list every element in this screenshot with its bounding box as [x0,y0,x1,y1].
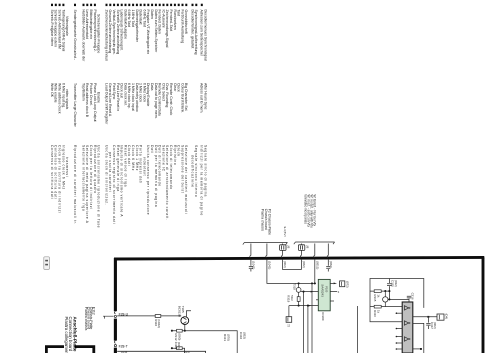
svg-text:Clock 6 MHz: Clock 6 MHz [131,145,135,171]
svg-text:Selezione di arrotondamento ca: Selezione di arrotondamento caratt. [165,145,169,220]
svg-text:Datentakt Ausgabe: Datentakt Ausgabe [123,10,127,40]
junction row to C316 [388,298,409,300]
connector box 12 [286,317,292,323]
svg-text:Piastra chassis: Piastra chassis [261,209,265,232]
bottom sub-board box [117,351,205,353]
bus: bottom U-shape [46,347,93,353]
svg-text:Data out to page mem.: Data out to page mem. [154,83,158,119]
svg-text:Consenso di scrittura dati: Consenso di scrittura dati [54,145,58,199]
svg-text:(080): (080) [178,333,182,340]
svg-text:(0512): (0512) [316,261,320,269]
svg-text:(1042): (1042) [157,319,161,328]
svg-text:C310: C310 [239,332,243,340]
svg-text:Porta ingressi dati: Porta ingressi dati [139,145,143,184]
svg-text:Phase Lock Loop Output: Phase Lock Loop Output [93,83,97,122]
svg-text:Reset veloce di riga: Reset veloce di riga [123,145,127,187]
svg-text:Ingresso clock 6 MHz: Ingresso clock 6 MHz [61,145,65,190]
svg-text:6 MHz Takt: 6 MHz Takt [142,10,146,27]
svg-text:trasmessi: trasmessi [65,157,69,177]
svg-text:1k: 1k [376,294,380,298]
wire into bottom-left pin [289,305,318,307]
svg-text:Impulso di sincronismo vertica: Impulso di sincronismo verticale A [120,145,124,217]
svg-text:Clock: Clock [177,145,181,157]
svg-text:Datentakt: Datentakt [139,10,143,25]
svg-text:6 MHz Takt: 6 MHz Takt [127,10,131,27]
svg-text:Freigabe VT-Wiedergabe ein: Freigabe VT-Wiedergabe ein [146,10,150,55]
svg-text:General Line Reset A: General Line Reset A [108,83,112,117]
capacitor C315 [387,279,392,300]
svg-text:Bildwiedergabe ein: Bildwiedergabe ein [89,10,93,40]
horizontal wire y=330.7 [172,331,237,353]
svg-text:Clock per la lettura di indiri: Clock per la lettura di indirizzi [89,145,93,210]
connector F28-U symbol [114,311,117,314]
wire 2 below bus to IC300 pin 1 [267,260,316,284]
svg-text:UB: UB [287,245,290,249]
wire 5 below bus joins pin1 wire [314,260,316,284]
svg-text:Selezione interlacciamento rig: Selezione interlacciamento riga [81,145,85,211]
svg-text:Synchronsignal-Aufbereitung: Synchronsignal-Aufbereitung [194,10,198,55]
svg-text:Load Output Shift Register: Load Output Shift Register [104,83,108,125]
svg-text:Fernbed.-Takt: Fernbed.-Takt [169,10,173,32]
svg-text:per uscita caratteri: per uscita caratteri [108,152,112,192]
svg-text:Clock out: Clock out [120,83,124,98]
svg-text:Write address clock: Write address clock [58,83,62,114]
svg-text:6 MHz input sig.: 6 MHz input sig. [61,83,65,108]
svg-text:6 MHz clock: 6 MHz clock [142,83,146,102]
svg-text:(062): (062) [329,261,333,268]
svg-text:Gesamt-Zeilenruecksetzung: Gesamt-Zeilenruecksetzung [108,10,112,54]
resistor R312 [177,329,183,332]
filter box on wire 4 [298,245,304,251]
emitter wire down [184,325,186,331]
svg-text:Segnale sincro di pagina: Segnale sincro di pagina [204,145,208,197]
svg-text:(032): (032) [394,280,398,287]
svg-text:Phasensynchronisierung 2.: Phasensynchronisierung 2. [93,10,97,52]
svg-text:decodificazione: decodificazione [190,155,194,188]
svg-text:(1042): (1042) [252,261,256,269]
svg-text:R316: R316 [373,310,377,317]
bracket group 2 [294,242,335,244]
svg-text:Selezione IC: Selezione IC [161,145,165,172]
svg-text:Field Sync: Field Sync [112,83,116,100]
bus: right vertical [482,257,485,353]
wire 6 below bus with capacitor [326,260,330,272]
svg-text:Char. Rounding: Char. Rounding [165,83,169,107]
svg-text:Clock: Clock [177,83,181,92]
svg-text:Clock di telecomando: Clock di telecomando [169,145,173,190]
pin stubs green IC [330,283,337,301]
svg-text:Halbbilder-Auswahl, oberhalb d: Halbbilder-Auswahl, oberhalb der [81,10,85,63]
svg-text:Clock 1 MHz: Clock 1 MHz [135,145,139,171]
capacitor C308 branch [172,348,185,353]
svg-text:Data: Data [150,83,154,90]
transistor T315 [383,297,388,302]
connector E23 [44,257,50,270]
svg-text:Write OK: Write OK [50,83,54,98]
svg-text:Dateneingabefenster: Dateneingabefenster [135,10,139,43]
svg-text:C317: C317 [430,322,434,329]
svg-text:(062): (062) [433,322,437,329]
svg-text:SAA5243: SAA5243 [321,284,325,297]
wire into pin2 with arrow [301,291,319,293]
svg-text:After Hours Sync: After Hours Sync [204,83,208,110]
svg-text:Schnelle Zeilenruecksetzung: Schnelle Zeilenruecksetzung [116,10,120,55]
svg-text:Schreib-Freigabe intern: Schreib-Freigabe intern [50,10,54,47]
svg-text:Schreib-Freigabe extern: Schreib-Freigabe extern [54,10,58,48]
svg-text:Ruecksetzen: Ruecksetzen [173,10,177,30]
svg-text:T310: T310 [293,283,297,290]
svg-text:Consenso di scrittura dati: Consenso di scrittura dati [50,145,54,199]
svg-text:Fast Line Reset in: Fast Line Reset in [116,83,120,111]
IC310 right wires [413,316,437,318]
svg-text:IC300: IC300 [321,312,325,320]
svg-text:Adress out to mem.: Adress out to mem. [200,83,204,113]
transistor T305 [181,317,189,325]
svg-text:Taktregelung 6 MHz Signal: Taktregelung 6 MHz Signal [61,10,65,52]
svg-text:Data clock sel.: Data clock sel. [123,83,127,106]
svg-text:Riproduzione di quadro: Riproduzione di quadro [93,145,97,194]
svg-text:Clock per la scrittura di indi: Clock per la scrittura di indirizzi [58,145,62,213]
svg-text:F28-T: F28-T [119,344,128,348]
svg-text:Picture On sel.: Picture On sel. [89,83,93,106]
svg-text:(072): (072) [345,281,349,288]
svg-text:(1042): (1042) [268,261,272,269]
svg-text:Schieberegister-Freigabe: Schieberegister-Freigabe [97,14,101,53]
svg-text:Zeichenrundungs-Signal: Zeichenrundungs-Signal [165,10,169,48]
svg-text:Dati: Dati [150,145,154,154]
svg-text:9-3,5V=: 9-3,5V= [283,227,287,238]
svg-text:Uscita consenso per riproduzio: Uscita consenso per riproduzione [146,145,150,215]
svg-text:Ladeimpuls Schieberegist.: Ladeimpuls Schieberegist. [120,10,124,51]
svg-text:T305: T305 [181,306,185,313]
standalone vertical wire [357,306,359,353]
wire 1 below bus with capacitor [249,260,253,272]
svg-text:UB: UB [305,245,308,249]
transistor T310 [296,288,301,293]
svg-text:Data entry window: Data entry window [135,83,139,112]
svg-text:Clear: Clear [173,83,177,92]
resistor R110 [155,315,161,318]
bus: left vertical with connector gaps [114,258,117,311]
svg-text:1 MHz clock input: 1 MHz clock input [131,83,135,111]
svg-text:video signals: video signals [65,89,69,109]
svg-text:Indirizzi per la memoria di pa: Indirizzi per la memoria di pagine [200,145,204,216]
svg-text:Daten zum Seiten-Speicher: Daten zum Seiten-Speicher [154,10,158,54]
svg-text:C315: C315 [390,280,394,287]
svg-text:Reset generale di riga: Reset generale di riga [116,145,120,192]
svg-text:(062): (062) [302,261,306,268]
resistor R315 row [370,290,389,292]
svg-text:(070): (070) [226,334,230,341]
svg-text:(052): (052) [243,332,247,339]
resistor R318 [297,297,300,302]
svg-text:1 MHz Takt: 1 MHz Takt [131,10,135,27]
svg-text:Takt: Takt [177,10,181,16]
svg-text:Chip Select: Chip Select [161,83,165,101]
svg-text:Enable: Enable [97,92,101,103]
svg-text:Adressen zum Seitenspeicher: Adressen zum Seitenspeicher [200,10,204,57]
svg-text:Piastra chassis: Piastra chassis [84,307,88,331]
svg-text:Colour Burst Blank.: Colour Burst Blank. [180,83,184,113]
svg-text:Piastra collegamenti: Piastra collegamenti [64,317,69,354]
svg-text:Segnale sincrono interno: Segnale sincrono interno [194,145,198,197]
IC300 teletext processor (green) [318,279,330,310]
wire stub to F28-U [103,316,114,318]
svg-text:Videosignale: Videosignale [65,16,69,36]
svg-text:Dati per la memoria di pagina: Dati per la memoria di pagina [154,145,158,207]
svg-text:Selezione di meta pagina super: Selezione di meta pagina superiore A [85,145,89,224]
svg-text:Schreib-Adressentakt 6M: Schreib-Adressentakt 6M [58,10,62,49]
wire loop frame [370,279,424,322]
svg-text:51R: 51R [290,295,294,300]
svg-text:6 MHz clock inp.: 6 MHz clock inp. [127,83,131,109]
IC310 left pin stubs [396,312,402,314]
capacitor C316 [407,296,411,302]
svg-text:Uscita sincronismo riproduzion: Uscita sincronismo riproduzione di fase [97,145,101,228]
svg-text:videotext: videotext [142,157,146,176]
wire F28-U to transistor [117,315,181,317]
svg-text:televideo incorporato: televideo incorporato [303,195,307,225]
svg-text:Top/Bottom: Top/Bottom [81,83,85,101]
connector wires through bus [250,244,251,258]
bus: main horizontal supply line [114,257,484,259]
svg-text:Sendergesteuerte Grossbuchst.-: Sendergesteuerte Grossbuchst.- [73,10,77,61]
svg-text:Lese-Adressentakt: Lese-Adressentakt [85,10,89,39]
svg-text:Write enable: Write enable [54,83,58,103]
svg-text:Vertikal-Synchronimpuls ges.: Vertikal-Synchronimpuls ges. [112,10,116,55]
svg-text:Display Enable: Display Enable [146,83,150,106]
svg-text:Zwischenzeilenabtastung ein/au: Zwischenzeilenabtastung ein/aus [104,10,108,62]
signal list text columns [50,4,208,228]
svg-text:Consenso registro di scorrimen: Consenso registro di scorrimento dati [112,145,116,224]
filter box on wire 3 [280,245,286,251]
svg-text:Read address clock B: Read address clock B [85,83,89,118]
svg-text:Grossbildschrift: Grossbildschrift [184,10,188,34]
svg-text:(042): (042) [177,342,181,349]
svg-text:Ripristino: Ripristino [173,145,177,165]
svg-text:Big Character Sel.: Big Character Sel. [184,83,188,111]
resistor R316 row [370,306,402,308]
bracket P2 group 1 [243,242,288,244]
svg-text:Farbburst-Austastung: Farbburst-Austastung [180,10,184,44]
U-link wires 3-4 [283,260,302,270]
svg-text:Clock dati: Clock dati [127,145,131,166]
svg-text:1 MHz clock: 1 MHz clock [139,83,143,102]
svg-text:Daten: Daten [150,10,154,19]
svg-text:Remote Control Data: Remote Control Data [158,83,162,116]
svg-text:P100: P100 [325,286,329,293]
svg-text:IC-Auswahl: IC-Auswahl [161,10,165,28]
svg-text:Transmitter Large Character: Transmitter Large Character [73,83,77,128]
svg-text:Remote Contr. Clock: Remote Contr. Clock [169,83,173,116]
svg-text:Decodiermenues Synchronsignal: Decodiermenues Synchronsignal [204,10,208,62]
svg-text:Dati di telecomando: Dati di telecomando [158,145,162,187]
svg-text:1k: 1k [376,310,380,314]
output box right of IC300 [340,281,345,287]
connector F28-T symbol [114,341,117,344]
svg-text:Fernbed. Daten: Fernbed. Daten [158,10,162,34]
connector box right [437,314,444,320]
svg-text:Uscita clock di sincronizzaz.: Uscita clock di sincronizzaz. [104,145,108,205]
svg-text:Soppressione del burst: Soppressione del burst [180,145,184,193]
svg-text:C316: C316 [411,293,415,300]
svg-text:(D4): (D4) [445,314,449,320]
svg-text:Selezione dei caratteri maiusc: Selezione dei caratteri maiuscoli [184,145,188,214]
svg-text:Riproduzione di caratteri maiu: Riproduzione di caratteri maiuscoli tr. [73,145,77,225]
svg-text:Decodierfenster, getastet: Decodierfenster, getastet [190,10,194,49]
svg-text:(062): (062) [283,261,287,268]
IC310 driver array (grey) [402,302,413,353]
three output wires down [303,292,305,353]
